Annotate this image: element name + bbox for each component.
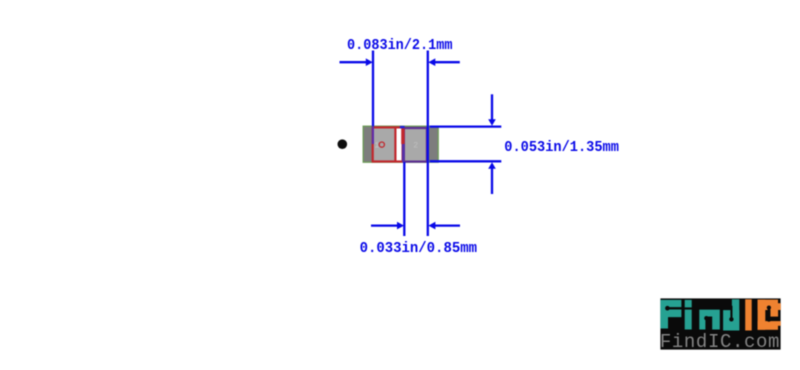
pin 1 marker circle [379, 142, 384, 147]
logo letter I [745, 299, 752, 330]
svg-text:0.033in/0.85mm: 0.033in/0.85mm [360, 240, 477, 257]
arrowhead top-left pointing right [366, 58, 373, 66]
svg-text:0.053in/1.35mm: 0.053in/1.35mm [504, 139, 619, 156]
black dot [338, 139, 348, 149]
arrowhead right-dim pointing up [488, 162, 496, 169]
purple pad 2 outline [404, 128, 427, 162]
white pad gap [396, 127, 403, 161]
logo letter d [732, 299, 739, 330]
bottom dimension arrow line left [371, 224, 398, 226]
top dimension arrow line right [435, 61, 460, 63]
svg-text:2: 2 [413, 141, 418, 150]
arrowhead right-dim pointing down [488, 119, 496, 126]
pad 1 [373, 127, 396, 161]
pad 2 [404, 127, 428, 162]
logo letter F [660, 300, 681, 329]
right dimension extension line top [430, 125, 502, 127]
right dimension arrow line lower [491, 169, 493, 195]
arrowhead bottom-left pointing right [397, 222, 404, 230]
logo via dots in C [767, 306, 771, 310]
red pad1 right edge [394, 127, 396, 161]
red component outline [373, 127, 403, 161]
top dimension arrow line left [340, 61, 367, 63]
right dimension arrow line upper [491, 94, 493, 119]
svg-text:0.083in/2.1mm: 0.083in/2.1mm [347, 37, 453, 54]
component body [363, 126, 438, 162]
extension line pad gap lower (x=404.6) [402, 144, 405, 162]
logo background [660, 298, 780, 349]
bottom dimension arrow line right [435, 224, 460, 226]
extension line left (x=373) [372, 51, 374, 127]
svg-text:FindIC.com: FindIC.com [660, 331, 780, 353]
extension line right (x=427.8) [427, 51, 429, 237]
logo via dot in d [729, 317, 733, 321]
right dimension extension line bottom [430, 160, 502, 162]
red segment upper half of gap line [401, 127, 404, 144]
arrowhead bottom-right pointing left [428, 222, 435, 230]
logo letter C [758, 300, 766, 330]
logo via dot in n [704, 316, 708, 320]
logo letter n [699, 310, 720, 330]
purple overlap segment on red left edge [372, 126, 374, 144]
logo letter i [685, 300, 692, 308]
arrowhead top-right pointing left [428, 58, 435, 66]
blue segment on top edge of gap [400, 126, 405, 128]
logo via dot in F [665, 306, 670, 311]
svg-text:1: 1 [374, 142, 379, 151]
